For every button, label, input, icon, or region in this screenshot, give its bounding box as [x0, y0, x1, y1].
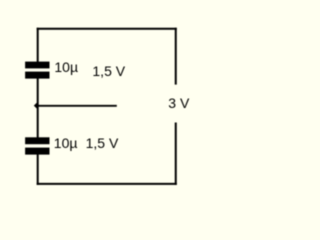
svg-text:10µ: 10µ [54, 135, 78, 151]
svg-text:10µ: 10µ [54, 59, 78, 75]
wire middle tap horizontal [37, 105, 117, 107]
svg-text:3 V: 3 V [168, 95, 190, 111]
wire left vertical lower (C2 bottom plate to corner) [37, 154, 39, 185]
capacitor C1 top plate [25, 62, 49, 69]
wire bottom horizontal [37, 183, 177, 185]
node junction dot [34, 103, 40, 109]
svg-text:1,5 V: 1,5 V [86, 135, 119, 151]
wire right vertical upper [175, 28, 177, 85]
wire top horizontal [37, 28, 177, 30]
capacitor C1 bottom plate [25, 72, 49, 79]
capacitor C2 top plate [25, 137, 49, 144]
wire left vertical upper (corner to C1 top plate) [37, 28, 39, 63]
wire right vertical lower [175, 123, 177, 185]
capacitor C2 bottom plate [25, 148, 49, 155]
svg-text:1,5 V: 1,5 V [92, 63, 125, 79]
wire left vertical middle (C1 bottom to C2 top through node) [37, 79, 39, 138]
